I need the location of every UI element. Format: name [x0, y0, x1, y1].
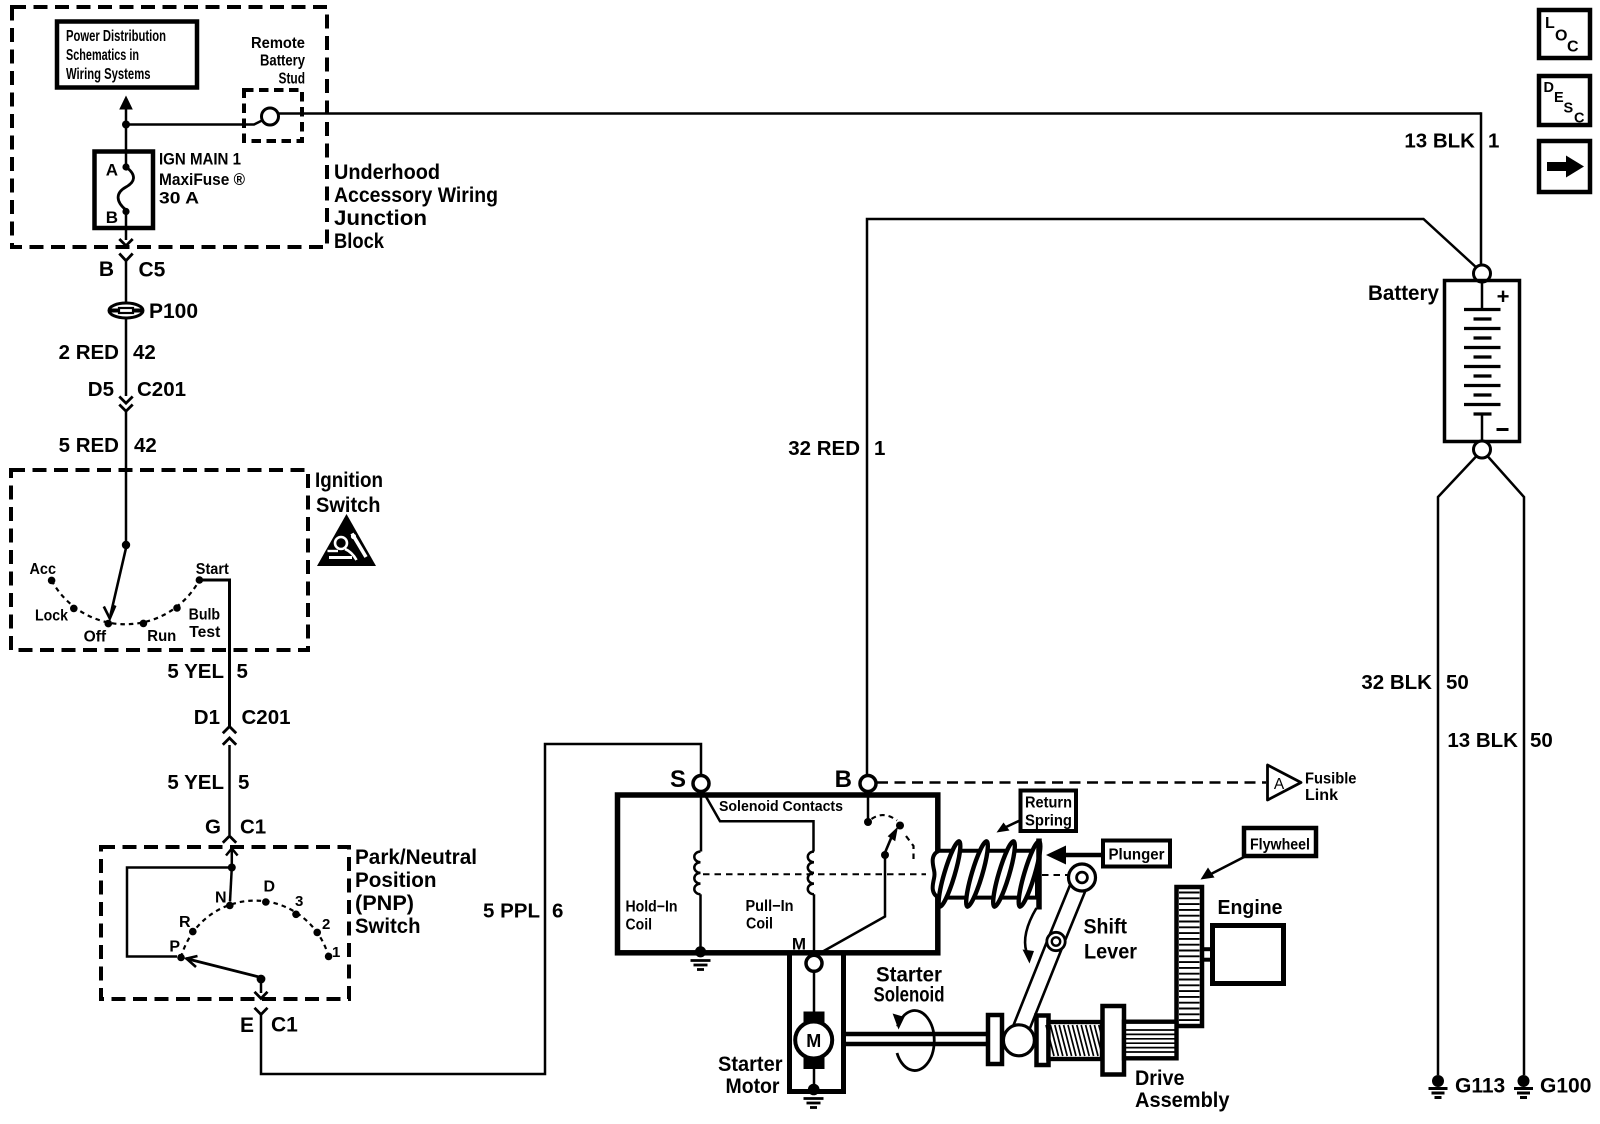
- svg-text:C5: C5: [139, 259, 166, 282]
- fuse terminal B: [106, 208, 130, 227]
- terminal B: [835, 766, 876, 793]
- battery cells: [1464, 282, 1501, 441]
- svg-text:2 RED: 2 RED: [59, 341, 119, 364]
- switch wiper arm: [104, 548, 126, 619]
- svg-text:G113: G113: [1455, 1075, 1505, 1098]
- svg-text:D5: D5: [88, 378, 114, 401]
- svg-text:A: A: [1274, 776, 1285, 793]
- solenoid axis dashed line: [703, 873, 1068, 876]
- svg-text:Accessory Wiring: Accessory Wiring: [334, 184, 498, 207]
- svg-text:S: S: [1564, 101, 1574, 117]
- motor armature: [795, 1022, 832, 1059]
- fuse label: [159, 151, 245, 208]
- svg-text:C201: C201: [137, 378, 186, 401]
- wire label 32 RED 1: [788, 437, 885, 460]
- svg-text:A: A: [106, 161, 118, 180]
- terminal M: [792, 935, 822, 972]
- svg-text:+: +: [1497, 284, 1510, 309]
- svg-text:2: 2: [322, 916, 330, 933]
- svg-text:Wiring Systems: Wiring Systems: [66, 66, 151, 83]
- wire 13 BLK: battery to G100: [1487, 456, 1524, 1076]
- svg-text:M: M: [806, 1031, 821, 1051]
- svg-text:Pull−In: Pull−In: [746, 898, 794, 915]
- svg-text:C1: C1: [240, 816, 266, 839]
- wire pull-in coil to M: [813, 894, 816, 956]
- svg-text:Battery: Battery: [1368, 282, 1439, 305]
- svg-text:M: M: [792, 935, 806, 954]
- svg-text:Plunger: Plunger: [1109, 847, 1165, 864]
- splice P100: [108, 300, 198, 323]
- svg-text:Engine: Engine: [1218, 897, 1283, 919]
- hold-in coil: [694, 852, 700, 895]
- fusible link label: [1305, 771, 1357, 805]
- junction block name: [334, 161, 498, 253]
- shift lever label: [1084, 915, 1138, 964]
- wire: Start contact down: [201, 580, 230, 726]
- svg-text:C: C: [1567, 39, 1579, 56]
- wire contact pivot to M: [818, 858, 886, 955]
- svg-text:MaxiFuse ®: MaxiFuse ®: [159, 171, 245, 189]
- return spring arrow: [997, 820, 1023, 833]
- wire 2 RED 42: [125, 318, 128, 396]
- wire 32 BLK: battery to G113: [1438, 456, 1477, 1076]
- svg-text:Block: Block: [334, 230, 384, 253]
- svg-text:E: E: [1554, 90, 1564, 106]
- svg-text:C1: C1: [271, 1014, 298, 1037]
- svg-text:O: O: [1555, 28, 1567, 45]
- wire 32 RED: battery to solenoid B: [867, 219, 1478, 775]
- wire: C5 to P100: [125, 261, 128, 303]
- forward arrow icon box: [1539, 141, 1590, 192]
- remote battery stud label: [251, 35, 305, 88]
- switch feed dot: [122, 541, 130, 549]
- svg-text:Link: Link: [1305, 787, 1338, 804]
- svg-text:C201: C201: [242, 706, 291, 729]
- svg-text:Coil: Coil: [746, 916, 773, 933]
- svg-text:Flywheel: Flywheel: [1250, 837, 1310, 854]
- svg-text:Assembly: Assembly: [1135, 1088, 1230, 1112]
- contact pivot dot: [881, 851, 889, 859]
- contact travel dashed arc: [872, 815, 898, 820]
- flywheel arrow: [1201, 856, 1247, 880]
- svg-text:D: D: [1544, 80, 1554, 96]
- svg-text:Park/Neutral: Park/Neutral: [355, 846, 477, 869]
- shift lever motion arrow: [1023, 908, 1037, 964]
- wire: 13 BLK from stud to battery (top run): [279, 112, 1482, 266]
- wire: stud terminal to junction: [126, 121, 262, 125]
- wire label 13 BLK 50: [1447, 729, 1552, 752]
- wire: fuse B to connector C5: [125, 212, 128, 241]
- PNP entry arrow: [226, 849, 238, 868]
- svg-text:Schematics in: Schematics in: [66, 47, 139, 64]
- svg-text:Acc: Acc: [30, 561, 57, 578]
- battery minus: [1497, 428, 1509, 431]
- contact fixed dot (right): [896, 822, 904, 830]
- svg-text:Solenoid: Solenoid: [874, 984, 945, 1007]
- svg-text:IGN MAIN 1: IGN MAIN 1: [159, 151, 241, 169]
- svg-text:Spring: Spring: [1025, 813, 1072, 830]
- svg-text:G100: G100: [1540, 1075, 1591, 1098]
- svg-text:Return: Return: [1025, 795, 1072, 812]
- connector D5 C201: [88, 378, 186, 411]
- svg-text:B: B: [106, 208, 118, 227]
- starter solenoid label: [874, 964, 945, 1007]
- svg-text:(PNP): (PNP): [355, 892, 414, 915]
- wire 5 YEL 5 (lower): [228, 745, 231, 835]
- wire label 5 YEL 5 (upper): [167, 660, 248, 683]
- plunger cylinder: [933, 851, 1037, 898]
- svg-text:B: B: [835, 766, 852, 793]
- svg-text:50: 50: [1446, 671, 1469, 694]
- arrow up to power distribution: [119, 96, 133, 125]
- svg-text:Switch: Switch: [355, 915, 421, 938]
- svg-text:Switch: Switch: [316, 494, 381, 517]
- starter solenoid box: [618, 795, 938, 953]
- svg-text:13 BLK: 13 BLK: [1447, 729, 1518, 752]
- return spring label box: [1021, 791, 1077, 832]
- ground G100: [1514, 1075, 1591, 1098]
- shaft rotation arrow: [893, 1011, 935, 1071]
- svg-text:42: 42: [134, 434, 157, 457]
- svg-text:B: B: [99, 258, 114, 281]
- battery box: [1445, 281, 1520, 442]
- PNP switch name: [355, 846, 477, 938]
- ignition switch dashed box: [11, 470, 308, 650]
- switch position arc: [52, 580, 200, 624]
- wire to N contact: [230, 868, 232, 902]
- drive ball joint: [1003, 1025, 1034, 1056]
- plunger label box: [1103, 841, 1170, 867]
- svg-text:Test: Test: [189, 624, 220, 641]
- PNP pivot dot: [257, 975, 266, 984]
- remote battery stud dashed box: [244, 90, 302, 141]
- power distribution reference box: [57, 22, 197, 88]
- svg-text:P100: P100: [149, 300, 198, 323]
- dashed wire B to fusible link: [877, 781, 1266, 784]
- switch position labels: [30, 561, 229, 646]
- wire hold-in coil to ground: [699, 894, 702, 949]
- flywheel label box: [1244, 828, 1316, 856]
- motor top brush: [804, 1012, 825, 1025]
- shift lever mid pivot: [1047, 932, 1065, 950]
- hold-in coil label: [626, 898, 678, 933]
- drive clutch hatched section: [1046, 1022, 1107, 1059]
- wire S to pull-in coil: [703, 791, 814, 852]
- svg-text:Lock: Lock: [35, 608, 68, 625]
- svg-text:5 PPL: 5 PPL: [483, 900, 540, 923]
- PNP junction dot: [228, 864, 236, 872]
- fuse element: [118, 167, 133, 210]
- fuse box IGN MAIN 1: [95, 152, 154, 229]
- ignition switch name: [315, 469, 383, 517]
- svg-text:C: C: [1574, 111, 1585, 127]
- svg-text:Off: Off: [84, 629, 107, 646]
- wire label 5 YEL 5 (lower): [167, 771, 249, 794]
- male pin chevron into C5: [119, 239, 132, 246]
- SIR caution triangle: [317, 514, 376, 566]
- battery top terminal: [1474, 265, 1491, 282]
- svg-text:Run: Run: [147, 628, 176, 645]
- drive assembly label: [1135, 1066, 1230, 1112]
- svg-text:Start: Start: [196, 561, 229, 578]
- contact moving arm: [884, 827, 898, 856]
- svg-text:R: R: [179, 914, 191, 931]
- connector B C5: [99, 254, 166, 282]
- solenoid contacts label: [719, 798, 843, 815]
- contact closed-position dashed path: [906, 836, 914, 861]
- wire label 32 BLK 50: [1361, 671, 1468, 694]
- svg-text:Solenoid Contacts: Solenoid Contacts: [719, 798, 843, 815]
- svg-text:42: 42: [133, 341, 156, 364]
- svg-text:Remote: Remote: [251, 35, 305, 52]
- svg-text:G: G: [205, 816, 221, 839]
- wire: pivot to E pin: [255, 979, 268, 999]
- ground G113: [1429, 1075, 1506, 1098]
- svg-text:Battery: Battery: [260, 53, 305, 70]
- svg-text:Bulb: Bulb: [189, 607, 221, 624]
- svg-text:5 YEL: 5 YEL: [167, 660, 224, 683]
- connector E C1: [240, 1008, 298, 1037]
- engine label: [1218, 897, 1283, 919]
- svg-text:Fusible: Fusible: [1305, 771, 1357, 788]
- battery plus: [1497, 284, 1510, 309]
- svg-text:Shift: Shift: [1084, 915, 1128, 939]
- svg-text:D1: D1: [194, 706, 220, 729]
- plunger end plate: [1036, 839, 1042, 910]
- remote battery stud terminal: [262, 108, 279, 125]
- junction dot at fuse feed: [122, 121, 130, 129]
- drive left plate: [988, 1015, 1002, 1064]
- svg-text:D: D: [264, 879, 276, 896]
- starter motor ground: [804, 1084, 824, 1108]
- connector G C1: [205, 816, 266, 843]
- svg-text:32 BLK: 32 BLK: [1361, 671, 1432, 694]
- svg-text:13 BLK: 13 BLK: [1404, 130, 1475, 153]
- shift lever top pivot: [1069, 864, 1096, 891]
- svg-text:Drive: Drive: [1135, 1066, 1185, 1090]
- svg-text:1: 1: [1488, 130, 1499, 153]
- svg-text:Lever: Lever: [1084, 940, 1138, 964]
- svg-text:5 YEL: 5 YEL: [167, 771, 224, 794]
- wire label 5 RED 42: [59, 434, 157, 457]
- drive right plate: [1103, 1006, 1125, 1075]
- svg-text:Position: Position: [355, 869, 437, 892]
- shift lever link: [1018, 878, 1082, 1037]
- svg-text:5: 5: [238, 771, 249, 794]
- PNP position arc: [181, 901, 329, 958]
- PNP loop wire to P contact: [127, 868, 232, 957]
- flywheel ring gear: [1177, 887, 1203, 1026]
- contact: B terminal wire: [867, 792, 870, 820]
- wire: junction to fuse A: [125, 125, 128, 168]
- svg-text:L: L: [1545, 15, 1555, 32]
- DESC icon box: [1539, 76, 1590, 127]
- PNP wiper arm: [186, 956, 261, 978]
- svg-text:N: N: [215, 890, 227, 907]
- drive splined shaft: [1124, 1022, 1177, 1059]
- svg-text:Coil: Coil: [626, 917, 653, 934]
- PNP switch dashed box: [101, 847, 349, 999]
- motor bottom brush: [804, 1057, 825, 1070]
- svg-text:5: 5: [237, 660, 248, 683]
- svg-text:Ignition: Ignition: [315, 469, 383, 492]
- fusible link symbol A: [1268, 765, 1302, 800]
- pull-in coil label: [746, 898, 794, 933]
- svg-text:1: 1: [332, 944, 340, 961]
- wire M to motor: [813, 971, 816, 1012]
- LOC icon box: [1539, 10, 1590, 58]
- svg-text:P: P: [169, 939, 180, 956]
- svg-text:Starter: Starter: [718, 1052, 783, 1076]
- wire label 5 PPL 6: [483, 900, 563, 923]
- hold-in coil wire from S: [700, 792, 703, 852]
- wire motor to ground: [813, 1069, 816, 1087]
- wire 5 PPL: E C1 to solenoid S: [261, 744, 701, 1074]
- fuse terminal A: [106, 161, 130, 180]
- svg-text:32 RED: 32 RED: [788, 437, 860, 460]
- wire label 13 BLK 1: [1404, 130, 1499, 153]
- motor shaft: [844, 1034, 989, 1044]
- plunger arrow: [1046, 846, 1103, 865]
- PNP position labels: [169, 879, 340, 962]
- svg-text:6: 6: [552, 900, 563, 923]
- crankshaft stubs: [1201, 949, 1213, 960]
- battery label: [1368, 282, 1439, 305]
- spring loops: [935, 840, 1044, 908]
- contact fixed dot (B): [864, 818, 872, 826]
- switch position dots: [48, 576, 203, 627]
- svg-text:5 RED: 5 RED: [59, 434, 119, 457]
- svg-text:E: E: [240, 1014, 254, 1037]
- underhood junction block dashed box: [12, 7, 327, 247]
- svg-text:50: 50: [1530, 729, 1553, 752]
- pull-in coil: [808, 852, 814, 895]
- wire label 2 RED 42: [59, 341, 156, 364]
- starter motor label: [718, 1052, 783, 1098]
- svg-text:1: 1: [874, 437, 885, 460]
- svg-text:S: S: [670, 766, 686, 793]
- svg-text:Power Distribution: Power Distribution: [66, 28, 166, 45]
- svg-text:30 A: 30 A: [159, 190, 199, 208]
- starter motor bracket: [790, 953, 844, 1092]
- wire 5 RED 42: [125, 411, 128, 545]
- svg-text:Hold−In: Hold−In: [626, 898, 678, 915]
- connector D1 C201: [194, 706, 291, 745]
- drive second plate: [1037, 1016, 1049, 1066]
- svg-text:Underhood: Underhood: [334, 161, 440, 184]
- engine box: [1213, 926, 1284, 984]
- svg-text:Junction: Junction: [334, 207, 427, 230]
- svg-text:Stud: Stud: [279, 71, 306, 88]
- battery bottom terminal: [1474, 441, 1491, 458]
- PNP position dots: [177, 898, 332, 961]
- terminal S: [670, 766, 709, 793]
- hold-in coil ground: [691, 946, 711, 969]
- svg-text:Motor: Motor: [726, 1074, 781, 1098]
- svg-text:3: 3: [295, 893, 303, 910]
